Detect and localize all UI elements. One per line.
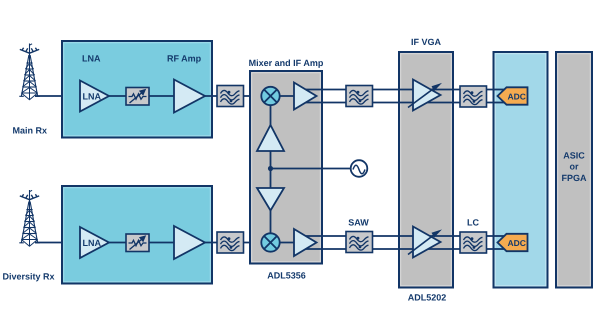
svg-text:LNA: LNA [83, 238, 102, 248]
wire: LO chain vertical (top mixer to up-amp) [270, 96, 272, 127]
ADC main [498, 87, 528, 104]
block: ASIC or FPGA [556, 52, 592, 288]
attenuator diversity [126, 234, 149, 252]
wire: down-amp to bottom mixer [270, 208, 272, 243]
svg-text:ADL5202: ADL5202 [408, 293, 447, 303]
filter IF main [346, 86, 373, 107]
svg-text:ASIC: ASIC [563, 150, 585, 160]
svg-text:SAW: SAW [348, 218, 369, 228]
filter LC diversity [460, 232, 487, 253]
wire: LNA to attenuator (main) [105, 95, 128, 97]
wire: IF diff pair main [303, 90, 505, 103]
svg-text:LC: LC [467, 218, 479, 228]
wire: mixer to IF amp (main) [280, 95, 296, 97]
attenuator main [126, 88, 149, 106]
amplifier RF amp main [174, 80, 205, 113]
wire: attenuator to RF amp (main) [147, 95, 178, 97]
mixer main (top) [261, 87, 279, 105]
wire: up-amp to junction to down-amp [270, 151, 272, 188]
block: ADL5356 mixer box [250, 71, 322, 264]
svg-text:ADC: ADC [508, 238, 526, 248]
wire: filter to mixer (diversity) [243, 242, 262, 244]
filter RF diversity [217, 232, 244, 253]
amplifier IF diversity [294, 229, 317, 256]
svg-text:ADL5356: ADL5356 [267, 271, 306, 281]
filter IF out main [460, 86, 487, 107]
svg-text:Main Rx: Main Rx [13, 126, 48, 136]
svg-text:ADC: ADC [508, 92, 526, 102]
svg-text:FPGA: FPGA [561, 173, 587, 183]
block: data converter box [494, 52, 548, 288]
wire: diff pair through ADL5202 (main) [399, 90, 453, 103]
amplifier RF amp diversity [174, 226, 205, 259]
wire: mixer to IF amp (diversity) [280, 242, 296, 244]
wire: diff pair into ADC (main) [494, 90, 506, 103]
amplifier LNA main [80, 81, 109, 112]
wire: RF amp to filter (diversity) [200, 242, 220, 244]
mixer diversity (bottom) [261, 233, 279, 251]
oscillator [351, 160, 368, 177]
wire: junction to oscillator [271, 168, 352, 170]
VGA diversity [408, 227, 442, 258]
wire: IF diff pair diversity [303, 236, 505, 249]
antenna main [19, 44, 39, 100]
amplifier LO up [257, 125, 284, 151]
ADC diversity [498, 234, 528, 251]
svg-text:IF VGA: IF VGA [411, 37, 442, 47]
block: ADL5202 VGA box [399, 52, 453, 288]
svg-text:LNA: LNA [83, 92, 102, 102]
svg-text:or: or [570, 162, 579, 172]
wire: attenuator to RF amp (diversity) [147, 242, 178, 244]
wire: RF amp to filter (main) [200, 95, 220, 97]
svg-text:LNA: LNA [82, 54, 101, 64]
amplifier LNA diversity [80, 227, 109, 258]
node: LO junction [268, 166, 273, 171]
filter SAW diversity [346, 232, 373, 253]
antenna diversity [19, 190, 39, 246]
amplifier IF main [294, 83, 317, 110]
block: diversity front-end box [62, 186, 212, 284]
wire: diversity antenna to LNA [35, 242, 82, 244]
svg-text:RF Amp: RF Amp [167, 54, 202, 64]
wire: filter to mixer (main) [243, 95, 262, 97]
filter RF main [217, 86, 244, 107]
block: main front-end box [62, 41, 212, 138]
wire: diff pair into ADC (diversity) [494, 236, 506, 249]
svg-text:Mixer and IF Amp: Mixer and IF Amp [249, 58, 324, 68]
wire: LNA to attenuator (diversity) [105, 242, 128, 244]
wire: main antenna to LNA [35, 95, 82, 97]
wire: diff pair through ADL5202 (diversity) [399, 236, 453, 249]
VGA main [408, 80, 442, 111]
amplifier LO down [257, 188, 284, 211]
label ASIC or FPGA [561, 150, 587, 183]
svg-text:Diversity Rx: Diversity Rx [3, 272, 55, 282]
